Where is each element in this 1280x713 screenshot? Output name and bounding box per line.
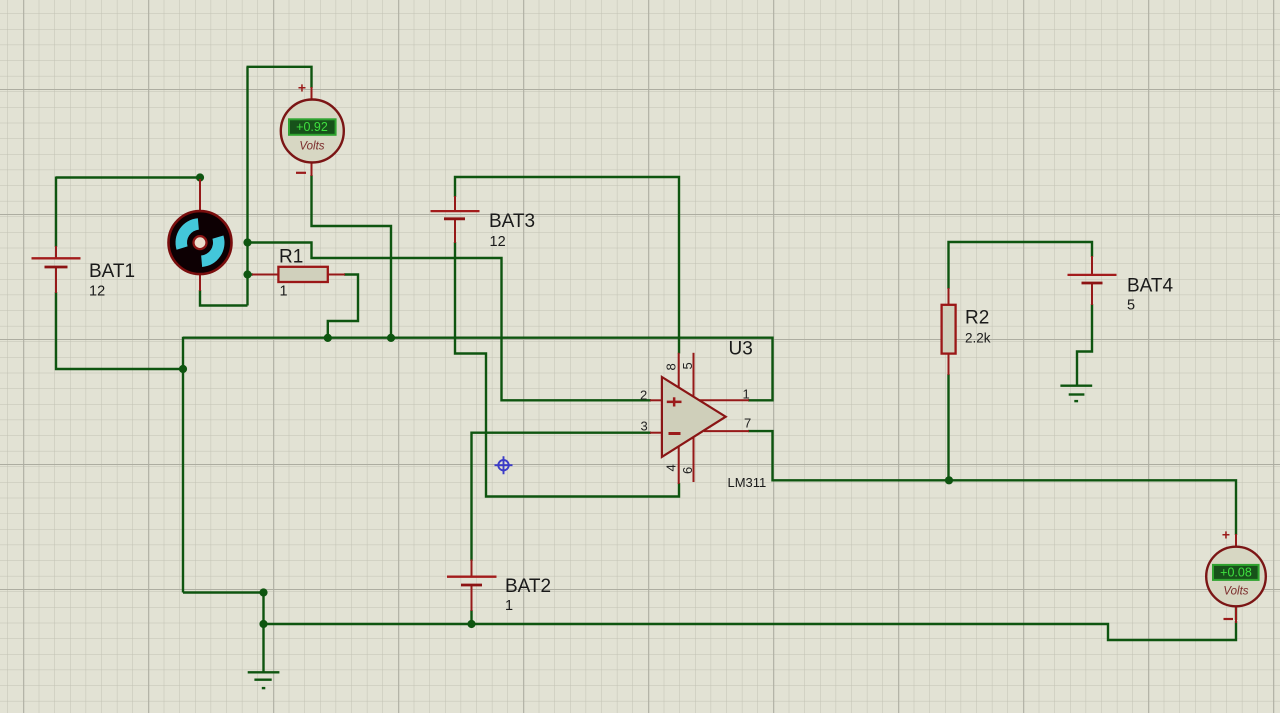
node BAT1 minus [179, 365, 187, 373]
pin U3 pin6 [693, 437, 695, 482]
pin BAT4 bottom [1091, 283, 1093, 305]
wire pin7 to output rail [748, 431, 1236, 535]
svg-text:7: 7 [744, 416, 751, 431]
pin R2 top [948, 288, 950, 305]
pin U3 pin8 [678, 353, 680, 388]
pin BAT3 top [454, 196, 456, 211]
pin R1 right [326, 274, 345, 276]
wire top to voltmeter plus [247, 67, 312, 88]
wire BAT3 bottom to pin4 loop [455, 242, 679, 497]
svg-text:1: 1 [743, 387, 750, 402]
wire voltmeter2 minus stub [1235, 607, 1237, 620]
op-amp U3 triangle [662, 377, 726, 457]
svg-text:BAT2: BAT2 [505, 576, 551, 597]
battery BAT1 [32, 258, 81, 267]
wire node A to op-amp pin2 [248, 243, 652, 401]
op-amp minus symbol [669, 432, 681, 435]
svg-text:4: 4 [664, 464, 679, 471]
pin R2 bottom [948, 353, 950, 375]
node R1 right on rail [324, 334, 332, 342]
svg-text:2.2k: 2.2k [965, 331, 991, 346]
svg-text:Volts: Volts [299, 141, 324, 153]
svg-text:BAT3: BAT3 [489, 211, 535, 232]
pin motor top [199, 179, 201, 212]
node A junction1 [243, 238, 251, 246]
svg-text:Volts: Volts [1223, 585, 1248, 597]
svg-text:1: 1 [280, 283, 288, 299]
svg-text:+: + [298, 80, 306, 96]
pin BAT3 bottom [454, 219, 456, 244]
wire BAT4 minus to ground [1077, 304, 1092, 385]
wire R2 top to BAT4 [949, 242, 1093, 289]
svg-text:6: 6 [680, 467, 695, 474]
svg-text:BAT1: BAT1 [89, 261, 135, 282]
wire left vertical x=183 [182, 337, 184, 593]
node ground lower [259, 620, 267, 628]
wire bottom rail [264, 621, 1237, 640]
node ground upper [259, 588, 267, 596]
pin voltmeter1 minus [311, 162, 313, 176]
wire vertical x=247.5 voltmeter to R1 [246, 67, 248, 306]
wire BAT2 plus up to pin3 [472, 433, 652, 561]
motor [169, 211, 232, 274]
svg-text:R2: R2 [965, 308, 989, 329]
pin BAT2 bottom [471, 585, 473, 611]
pin U3 pin4 [678, 447, 680, 485]
pin BAT2 top [471, 560, 473, 577]
node BAT2 minus [467, 620, 475, 628]
svg-text:R1: R1 [279, 246, 303, 267]
pin U3 pin2 [650, 399, 663, 401]
svg-text:U3: U3 [729, 339, 753, 360]
pin BAT1 bottom [55, 267, 57, 293]
svg-text:1: 1 [505, 598, 513, 614]
node junction2 R1 left [243, 270, 251, 278]
wire R2 bottom to output rail [947, 374, 949, 480]
pin BAT1 top [55, 246, 57, 258]
pin motor bottom [199, 273, 201, 291]
resistor R2 [942, 305, 956, 354]
wire BAT1 top to motor [56, 176, 200, 178]
pin U3 pin5 [693, 353, 695, 414]
pin BAT4 top [1091, 256, 1093, 275]
svg-text:12: 12 [89, 284, 105, 300]
node R2 output [945, 476, 953, 484]
pin voltmeter2 minus [1235, 606, 1237, 623]
wire motor bottom to R1 node [200, 290, 248, 306]
voltmeter VM2 [1206, 527, 1266, 621]
wire to ground node [183, 591, 264, 593]
pin R1 left [252, 274, 280, 276]
svg-text:8: 8 [664, 363, 679, 370]
svg-text:5: 5 [1127, 298, 1135, 314]
svg-text:5: 5 [680, 362, 695, 369]
wire BAT3 top rail to pin8 [455, 177, 679, 354]
ground right (BAT4) [1060, 386, 1092, 401]
wire R1 left [248, 273, 254, 275]
wire voltmeter minus down to rail [312, 175, 392, 338]
node voltmeter minus on rail [387, 334, 395, 342]
wire BAT1 left vertical [55, 177, 57, 248]
wire ground node down [262, 593, 264, 673]
pin U3 pin7 [704, 430, 749, 432]
battery BAT3 [431, 211, 480, 219]
svg-text:+: + [1222, 527, 1230, 543]
origin marker [495, 456, 513, 474]
wire BAT2 minus to rail [470, 610, 472, 624]
svg-text:BAT4: BAT4 [1127, 276, 1174, 297]
pin voltmeter2 plus [1235, 534, 1237, 548]
svg-text:LM311: LM311 [728, 475, 767, 490]
voltmeter VM1 [281, 80, 344, 174]
pin U3 pin1 [698, 399, 749, 401]
svg-text:+0.08: +0.08 [1220, 565, 1252, 579]
wire ground rail y=337 to pin1 [183, 338, 773, 401]
pin voltmeter1 plus [311, 87, 313, 100]
battery BAT4 [1068, 275, 1117, 283]
svg-text:12: 12 [490, 234, 506, 250]
pin U3 pin3 [650, 432, 663, 434]
node motor top [196, 173, 204, 181]
wire BAT1 bottom to node [56, 292, 183, 369]
svg-text:+0.92: +0.92 [296, 120, 328, 134]
svg-text:2: 2 [640, 388, 647, 403]
op-amp plus symbol [667, 397, 682, 406]
resistor R1 [278, 267, 327, 282]
wire R1 right staircase to rail [328, 275, 358, 338]
battery BAT2 [447, 577, 497, 585]
ground left [248, 672, 280, 688]
svg-text:3: 3 [641, 419, 648, 434]
